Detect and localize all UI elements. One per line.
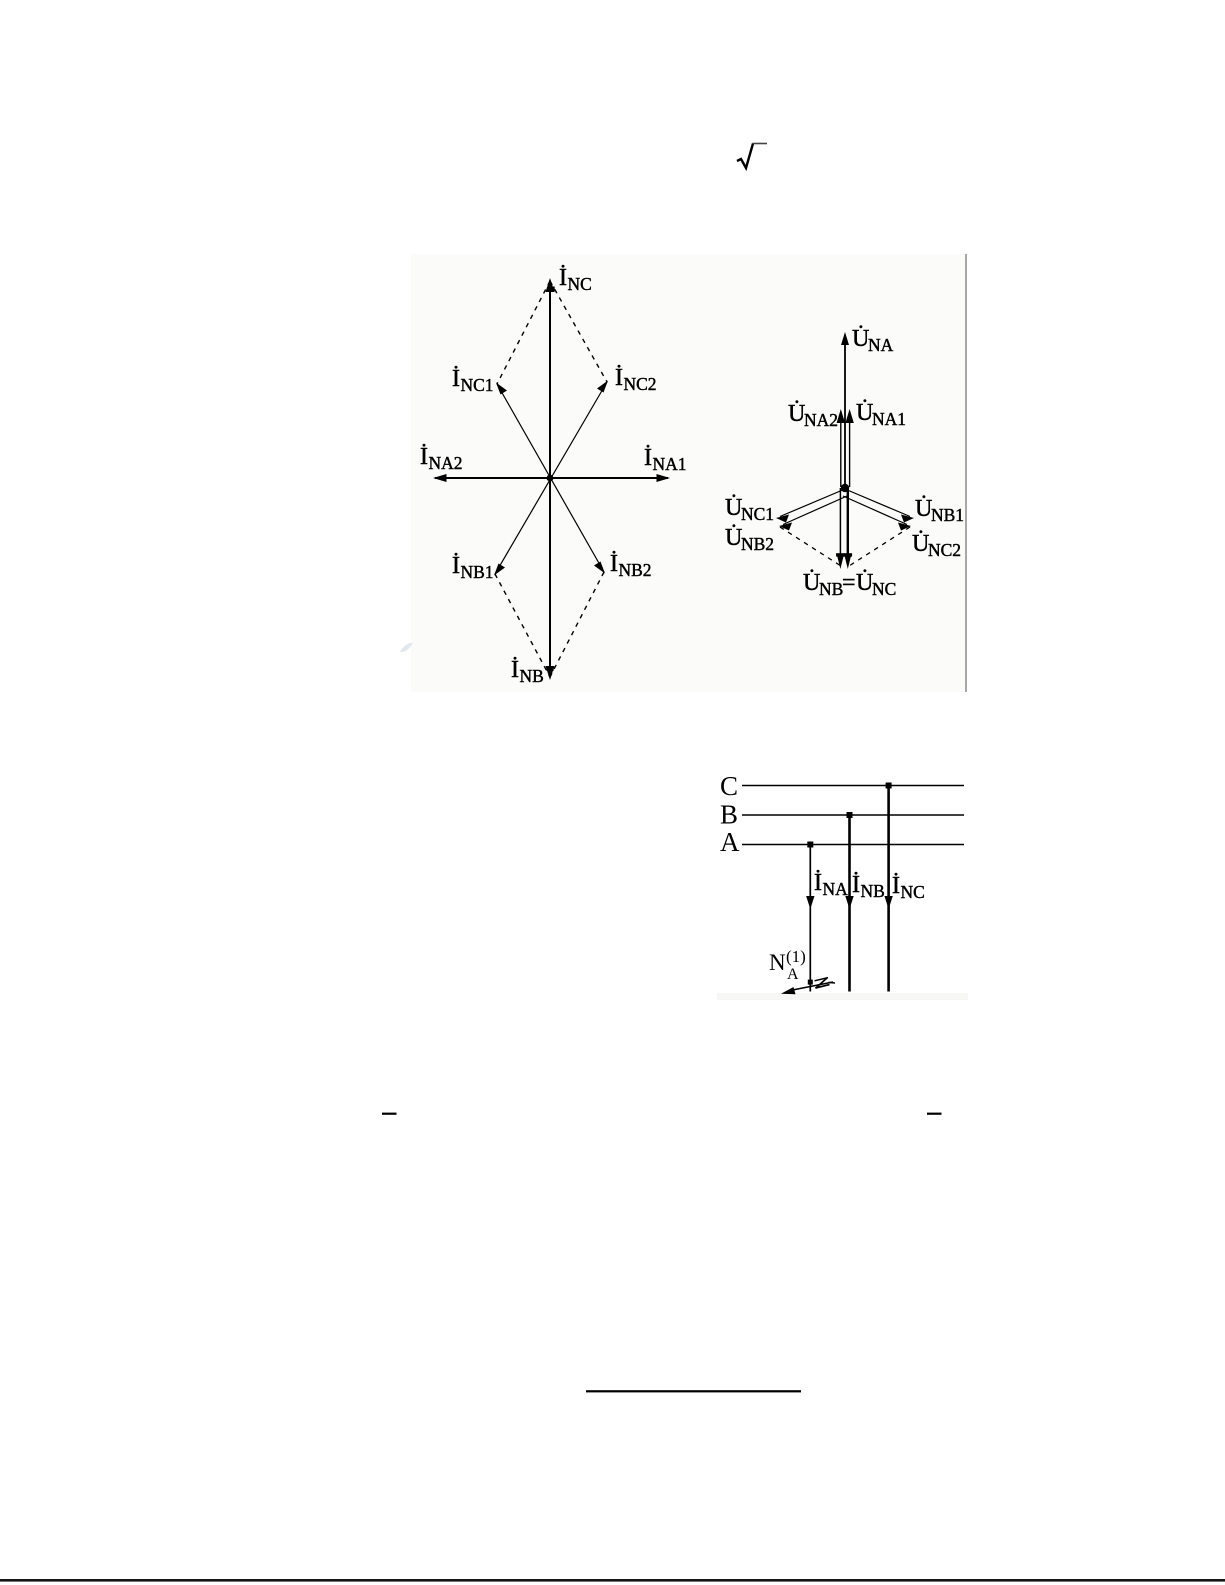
wire I_NC — [887, 786, 890, 992]
footer rule — [0, 1579, 1225, 1582]
label U_NC2 — [912, 530, 961, 560]
dashed side U_NC2 to U_NC — [849, 527, 910, 566]
vector I_NA1 / I_NA2 axis (horizontal) — [435, 477, 668, 479]
svg-text:İ: İ — [892, 873, 900, 899]
svg-text:NC1: NC1 — [461, 375, 494, 395]
junction I_NA on bus A — [807, 842, 813, 848]
label U_NA2 — [788, 400, 838, 430]
arrowhead U_NC1 — [776, 515, 789, 523]
vector U_NC2 — [843, 496, 907, 525]
svg-text:U̇: U̇ — [856, 399, 873, 426]
arrowhead I_NB wire — [845, 896, 853, 909]
label I_NB wire — [852, 872, 885, 901]
svg-text:NA: NA — [868, 335, 894, 355]
bus A — [742, 844, 964, 846]
svg-text:N: N — [769, 950, 786, 975]
dashed side I_NB2 to I_NB — [550, 572, 604, 677]
arrowhead I_NB2 — [594, 562, 605, 574]
svg-text:U̇: U̇ — [725, 524, 742, 551]
svg-text:İ: İ — [814, 870, 822, 896]
fault dash right — [829, 981, 836, 984]
vector U_NB1 — [845, 489, 910, 517]
label U_NC1 — [725, 494, 774, 524]
svg-text:NC: NC — [568, 274, 592, 294]
arrowhead I_NB1 — [494, 564, 505, 576]
junction I_NB on bus B — [847, 812, 853, 818]
vector U_NC (down) — [847, 488, 849, 556]
label I_NA2 — [420, 444, 463, 473]
scan band bottom of schematic — [717, 993, 968, 1000]
vector I_NB1 - I_NC2 diagonal — [495, 382, 607, 574]
vector U_NA2 — [840, 423, 842, 487]
svg-text:NA2: NA2 — [429, 453, 463, 473]
svg-text:İ: İ — [559, 265, 567, 291]
label I_NB1 — [452, 553, 494, 582]
label U_NB = U_NC — [803, 569, 896, 599]
label U_NA1 — [856, 399, 906, 429]
svg-text:NC1: NC1 — [741, 504, 774, 524]
svg-text:İ: İ — [452, 553, 460, 579]
svg-text:İ: İ — [610, 551, 618, 577]
wire I_NB — [848, 815, 851, 992]
fault arrowhead — [781, 987, 796, 994]
fault crossing node — [808, 980, 813, 985]
svg-text:NA2: NA2 — [804, 410, 838, 430]
arrowhead U_NA1 — [845, 409, 853, 423]
dash left — [382, 1113, 397, 1115]
svg-text:İ: İ — [511, 657, 519, 683]
label U_NA — [852, 325, 894, 355]
scanned figure background — [411, 254, 967, 692]
label I_NB2 — [610, 551, 652, 580]
vector I_NC / I_NB axis (vertical) — [549, 281, 551, 677]
arrowhead I_NC wire — [884, 896, 892, 909]
svg-text:NB1: NB1 — [461, 562, 494, 582]
junction I_NC on bus C — [886, 783, 892, 789]
svg-text:NB: NB — [819, 579, 843, 599]
label N_A^(1) fault name — [769, 947, 806, 983]
vector I_NC1 - I_NB2 diagonal — [497, 384, 604, 572]
scan right border — [965, 254, 967, 692]
arrowhead U_NB2 — [779, 523, 792, 531]
svg-text:NA1: NA1 — [872, 409, 906, 429]
arrowhead U_NA2 — [837, 409, 845, 423]
svg-text:U̇: U̇ — [915, 495, 932, 522]
svg-text:İ: İ — [615, 365, 623, 391]
bus C — [742, 785, 964, 787]
arrowhead U_NC2 — [898, 523, 911, 531]
svg-text:NB1: NB1 — [931, 505, 964, 525]
svg-text:U̇: U̇ — [803, 569, 820, 596]
svg-text:NB2: NB2 — [741, 534, 774, 554]
arrowhead I_NB — [546, 666, 555, 680]
label I_NA1 — [644, 445, 687, 474]
label U_NB1 — [915, 495, 964, 525]
svg-text:U̇: U̇ — [856, 569, 873, 596]
arrowhead U_NA — [841, 332, 849, 345]
label I_NC wire — [892, 873, 925, 902]
fault zigzag — [815, 978, 829, 981]
svg-text:İ: İ — [420, 444, 428, 470]
dashed side I_NB1 to I_NB — [495, 574, 550, 677]
svg-text:İ: İ — [452, 366, 460, 392]
node center right diagram — [841, 484, 849, 492]
label I_NB — [511, 657, 544, 686]
scan smudge — [400, 643, 413, 652]
arrowhead U_NB — [837, 556, 843, 569]
arrowhead I_NC1 — [496, 383, 507, 395]
arrowhead I_NA1 — [657, 474, 671, 482]
vector U_NC1 — [780, 489, 845, 517]
svg-text:İ: İ — [644, 445, 652, 471]
label I_NC2 — [615, 365, 657, 394]
vector U_NB2 — [783, 496, 847, 525]
svg-text:C: C — [720, 771, 738, 801]
svg-text:NB2: NB2 — [619, 560, 652, 580]
vector U_NB (down) — [839, 488, 841, 556]
dashed side I_NC to I_NC1 — [497, 281, 550, 384]
dashed side I_NC to I_NC2 — [550, 281, 607, 382]
svg-text:İ: İ — [852, 872, 860, 898]
svg-text:A: A — [787, 966, 799, 983]
svg-text:NA1: NA1 — [653, 454, 687, 474]
svg-text:=: = — [842, 570, 856, 596]
svg-text:U̇: U̇ — [725, 494, 742, 521]
svg-text:U̇: U̇ — [912, 530, 929, 557]
arrowhead I_NC — [546, 278, 555, 292]
arrowhead I_NC2 — [597, 381, 608, 393]
label U_NB2 — [725, 524, 774, 554]
dashed side U_NB2 to U_NB — [780, 527, 841, 566]
label I_NC — [559, 265, 592, 294]
arrowhead U_NB1 — [901, 515, 914, 523]
fault arrow shaft — [790, 982, 833, 991]
svg-text:A: A — [720, 827, 740, 857]
vector U_NA1 — [849, 423, 851, 487]
radical sign — [737, 144, 767, 169]
arrowhead I_NA2 — [433, 474, 447, 482]
wire I_NA — [809, 845, 811, 992]
node center left diagram — [547, 475, 554, 482]
svg-text:U̇: U̇ — [852, 325, 869, 352]
svg-text:(1): (1) — [786, 947, 806, 966]
svg-text:NC: NC — [901, 882, 925, 902]
svg-text:NB: NB — [520, 666, 544, 686]
label I_NC1 — [452, 366, 494, 395]
vector U_NA — [844, 336, 846, 487]
svg-text:NC: NC — [872, 579, 896, 599]
label I_NA wire — [814, 870, 848, 899]
underline — [586, 1390, 801, 1392]
arrowhead I_NA wire — [806, 896, 814, 909]
bus B — [742, 814, 964, 816]
svg-text:B: B — [720, 800, 738, 830]
svg-text:NA: NA — [823, 879, 849, 899]
dash right — [927, 1113, 942, 1115]
svg-text:NC2: NC2 — [624, 374, 657, 394]
svg-text:U̇: U̇ — [788, 400, 805, 427]
arrowhead U_NC — [845, 556, 851, 569]
svg-text:NC2: NC2 — [928, 540, 961, 560]
svg-text:NB: NB — [861, 881, 885, 901]
